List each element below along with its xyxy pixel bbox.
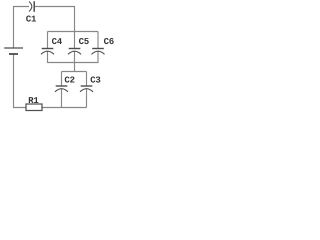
capacitor C3: [81, 85, 93, 87]
wire C5 lead: [74, 32, 76, 49]
label R1: [29, 97, 39, 103]
wire C3 lead: [86, 72, 88, 86]
wire R1 to C2/C3 bottoms: [42, 107, 87, 109]
wire C2 lead: [61, 72, 63, 86]
capacitor C1: [29, 2, 32, 12]
capacitor C5: [69, 48, 81, 50]
wire C5 bottom lead: [74, 52, 76, 64]
wire C3 bottom lead: [86, 89, 88, 108]
node C4/C5/C6 top bus: [48, 31, 99, 33]
resistor R1: [26, 104, 42, 111]
wire C6 bottom lead: [97, 52, 99, 64]
wire battery negative down to R1: [14, 54, 27, 108]
wire C4 lead: [47, 32, 49, 49]
battery BT1 short plate: [9, 53, 18, 55]
wire C2 bottom lead: [61, 89, 63, 108]
label C6: [104, 38, 114, 44]
wire top-left from battery up and right to C1: [14, 7, 30, 48]
label C1: [26, 15, 36, 21]
wire C4 bottom lead: [47, 52, 49, 64]
node C2/C3 top bus: [62, 71, 87, 73]
capacitor C2: [56, 85, 68, 87]
capacitor C4: [42, 48, 54, 50]
battery BT1 long plate: [4, 47, 23, 49]
wire bus to C2/C3 bus: [74, 63, 76, 73]
label C2: [65, 76, 75, 82]
wire from C1 right then down to bus junction: [35, 7, 75, 32]
label C5: [79, 38, 89, 44]
label C4: [52, 38, 62, 44]
label C3: [91, 76, 101, 82]
node C4/C5/C6 bottom bus: [48, 62, 99, 64]
wire C6 lead: [97, 32, 99, 49]
capacitor C6: [92, 48, 104, 50]
